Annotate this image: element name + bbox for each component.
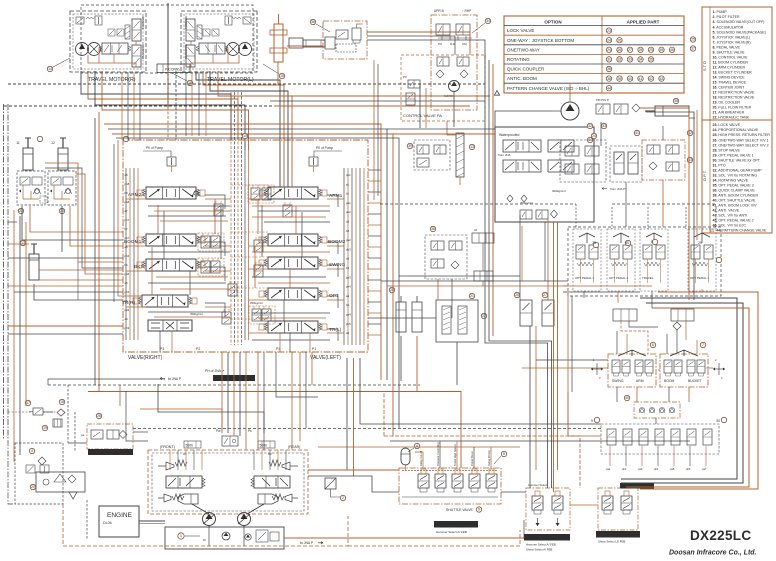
svg-text:36: 36 — [607, 67, 611, 71]
svg-text:pb7: pb7 — [125, 218, 130, 222]
svg-text:VALVE(LEFT): VALVE(LEFT) — [310, 355, 341, 361]
full flow filter box — [36, 472, 85, 492]
svg-text:OPTION: OPTION — [544, 20, 561, 25]
wire spool return y193 — [205, 195, 225, 209]
wire spine to spool y327 — [249, 332, 269, 334]
svg-text:18. RESTRICTION VALVE: 18. RESTRICTION VALVE — [713, 96, 755, 100]
circled 38 — [673, 98, 678, 103]
svg-text:38: 38 — [674, 99, 678, 103]
wire travel R line D — [102, 71, 249, 150]
svg-text:13: 13 — [21, 241, 25, 245]
svg-text:pa7: pa7 — [702, 467, 707, 471]
wire tank down — [456, 342, 458, 385]
wire pedal drop 2 — [617, 291, 619, 303]
svg-text:16: 16 — [188, 81, 192, 85]
svg-text:pa1: pa1 — [346, 201, 351, 205]
svg-text:DX225LC: DX225LC — [690, 528, 751, 543]
svg-text:13. BUCKET CYLINDER: 13. BUCKET CYLINDER — [713, 70, 753, 74]
svg-text:29: 29 — [698, 241, 702, 245]
wire left drop x120 — [119, 385, 121, 406]
svg-text:27. ONE/TWO-WAY SELECT V/V 2: 27. ONE/TWO-WAY SELECT V/V 2 — [713, 143, 769, 147]
boom cylinder 11 (right) — [58, 138, 68, 170]
svg-text:17: 17 — [26, 401, 30, 405]
circled 45 — [625, 240, 631, 245]
wire stop valve east — [133, 431, 148, 433]
control valve spool ARM1 — [259, 187, 327, 199]
svg-text:10. CONTROL VALVE: 10. CONTROL VALVE — [713, 55, 749, 59]
proportional valve cluster — [560, 140, 606, 182]
wire swing to PA C — [367, 36, 455, 55]
wire left loop vertical B — [94, 118, 96, 385]
wire pattern box top links — [495, 111, 552, 127]
wire right margin loop A — [621, 298, 737, 479]
svg-text:pa3: pa3 — [638, 467, 643, 471]
wire travel R line C — [95, 71, 245, 150]
circled 20 — [30, 484, 35, 489]
circled 39 — [407, 143, 412, 148]
wire spool branch y294 — [327, 296, 338, 308]
wire block drop x228 — [227, 352, 229, 433]
wire right margin loop B — [621, 303, 743, 483]
svg-text:5. SOLENOID VALVE(PACKAGE): 5. SOLENOID VALVE(PACKAGE) — [713, 30, 766, 34]
wire travel L line C — [210, 71, 288, 187]
svg-text:FORWARD: FORWARD — [184, 16, 188, 29]
wire block east stub y280 — [368, 279, 381, 281]
wire block L interlink y216 — [148, 215, 226, 217]
circled 16 center joint — [187, 80, 192, 85]
svg-text:ANTIC. BOOM: ANTIC. BOOM — [507, 76, 537, 81]
svg-text:Hammer Select A/ FEB: Hammer Select A/ FEB — [526, 543, 556, 547]
svg-text:pa7: pa7 — [125, 236, 130, 240]
wire joy6 drop A — [616, 387, 618, 402]
svg-text:18: 18 — [60, 400, 64, 404]
wire top bus to right margin A — [270, 95, 490, 97]
svg-text:45: 45 — [625, 241, 629, 245]
wire block vert x152 — [151, 247, 153, 295]
wire pattern box drop B — [557, 222, 559, 470]
wire row west link — [568, 392, 601, 436]
circled 36 — [430, 226, 435, 231]
wire package riser 1 — [439, 441, 441, 468]
wire package riser 2 — [456, 441, 458, 468]
svg-text:42. ANTI. VALVE: 42. ANTI. VALVE — [713, 209, 740, 213]
wire left feeds y258 — [8, 257, 123, 259]
wire spool to spine y301 — [205, 306, 231, 308]
circled 30 — [716, 417, 727, 423]
svg-text:QUICK COUPLER: QUICK COUPLER — [507, 67, 545, 72]
wire loop top C — [112, 134, 393, 436]
wire bottom dashed bus y385 — [48, 384, 420, 386]
svg-text:40. OPT. SHUTTLE VALVE: 40. OPT. SHUTTLE VALVE — [713, 199, 756, 203]
wire relief to select x548 — [547, 218, 549, 300]
bottom shuttle valve row — [601, 424, 719, 454]
connector box L8 upper — [472, 233, 494, 243]
straight travel spool (bottom left) — [148, 320, 192, 331]
aux compensator valve — [222, 309, 231, 324]
one/two-way select valves 26 27 — [520, 300, 554, 326]
wire pedal box under bus B — [563, 285, 652, 287]
svg-text:8. PEDAL VALVE: 8. PEDAL VALVE — [713, 45, 741, 49]
wire swing drop x378 — [377, 64, 379, 196]
svg-text:a8: a8 — [125, 173, 129, 177]
wire lock-valve east-south bundle A — [45, 163, 123, 262]
wire spool return y240 — [205, 242, 225, 256]
SB-B label black box above — [620, 483, 654, 489]
wire select1 to select2 — [570, 504, 598, 506]
wire left boundary elbow — [8, 440, 15, 504]
svg-text:36. QUICK CLAMP VALVE: 36. QUICK CLAMP VALVE — [713, 189, 756, 193]
svg-text:31. PTO: 31. PTO — [713, 163, 726, 167]
circled 32 — [587, 123, 592, 128]
wire left feed y326 — [8, 325, 123, 327]
left aux cluster near control PA — [414, 140, 450, 170]
svg-text:43: 43 — [660, 77, 664, 81]
svg-text:26: 26 — [618, 48, 622, 52]
wire left rail to spool y193 — [126, 198, 146, 200]
svg-text:b8: b8 — [125, 191, 129, 195]
wire pump front drop x202 — [201, 450, 203, 470]
wire bottom dashed extension — [348, 530, 520, 546]
wire joy7 drop B — [688, 387, 690, 402]
aux compensator valve — [254, 237, 263, 252]
wire mid bus y286 — [387, 285, 568, 287]
svg-text:pa5: pa5 — [125, 308, 130, 312]
svg-text:33: 33 — [602, 124, 606, 128]
wire travel L line B — [203, 71, 284, 187]
wire block drop x222 — [221, 352, 223, 433]
svg-text:Swing Priority: Swing Priority — [487, 449, 491, 466]
wire block L interlink y221 — [160, 220, 228, 222]
wire block R interlink y283 — [258, 282, 330, 284]
solenoid package dash-dot box — [399, 468, 501, 504]
wire block R interlink y206 — [252, 205, 330, 207]
wire left feeds y270 — [39, 269, 123, 271]
wire pedal riser 1 — [575, 204, 577, 229]
wire spool to spine y193 — [205, 198, 231, 200]
boundary dash-dot lines left edge — [3, 104, 5, 440]
wire travel R line B — [88, 71, 238, 140]
wire PA pump down — [453, 92, 455, 127]
wire block vert x296 — [295, 206, 297, 234]
wire travel L line A — [196, 71, 280, 187]
svg-text:Shear Select LE FEB: Shear Select LE FEB — [598, 540, 625, 544]
pedal valve cluster TRAVEL — [640, 229, 668, 291]
control valve spool SWING — [259, 257, 327, 269]
circled 29 — [698, 241, 722, 262]
wire block vert x255 — [254, 246, 256, 288]
circled 19 oil cooler — [42, 425, 47, 430]
svg-text:31: 31 — [607, 58, 611, 62]
svg-text:34: 34 — [486, 19, 490, 23]
svg-text:O P T: O P T — [702, 170, 707, 181]
wire block vert x221 — [220, 205, 222, 259]
svg-text:34. ROTATING VALVE: 34. ROTATING VALVE — [713, 178, 749, 182]
svg-text:a1: a1 — [346, 182, 350, 186]
wire lock valve feed B — [8, 243, 29, 245]
svg-text:8: 8 — [651, 240, 653, 244]
wire block vert x258 — [257, 199, 259, 234]
wire pump to housing A — [208, 526, 210, 527]
wire rail stub — [137, 306, 138, 308]
svg-text:pa2: pa2 — [346, 238, 351, 242]
wire pump drop B — [243, 525, 245, 546]
svg-text:27: 27 — [543, 293, 547, 297]
accumulator (4) — [401, 448, 410, 470]
filter diamond right — [673, 322, 681, 330]
pedal valve cluster OPT. PEDAL 2 — [607, 229, 635, 291]
control valve spool BKT — [137, 259, 205, 271]
wire PA east drop C — [492, 64, 494, 336]
svg-text:pb5: pb5 — [125, 290, 130, 294]
svg-text:250kg/cm²: 250kg/cm² — [250, 301, 263, 305]
circled 34 — [485, 18, 490, 23]
wire mid bus y281 — [381, 280, 568, 282]
svg-text:pa3: pa3 — [346, 275, 351, 279]
svg-text:pb5: pb5 — [346, 322, 351, 326]
svg-text:25. HIGH PRESS. RETURN FILTER: 25. HIGH PRESS. RETURN FILTER — [713, 133, 771, 137]
circled 24 — [591, 133, 596, 138]
wire pilot dashed y232 — [231, 231, 268, 233]
wire block R interlink y252 — [252, 251, 330, 253]
wire engine room dashed enclosure — [63, 504, 348, 546]
svg-text:26: 26 — [618, 38, 622, 42]
wire pattern drop x545 — [544, 222, 546, 281]
svg-text:S T D: S T D — [702, 61, 707, 71]
wire gear pump down — [600, 122, 602, 146]
svg-text:22. HYDRAULIC TANK: 22. HYDRAULIC TANK — [713, 116, 750, 120]
circled 26 — [514, 292, 519, 297]
wire qc drop A — [437, 279, 439, 300]
wire joy drop d — [696, 340, 698, 354]
restriction diamond — [57, 409, 65, 416]
svg-text:12: 12 — [51, 141, 55, 145]
center joint feed line — [167, 3, 169, 108]
wire lock valve R down — [61, 206, 63, 252]
circled 12 — [51, 136, 129, 145]
wire dashed riser x168 — [167, 71, 169, 140]
housing inner boxes — [256, 530, 268, 542]
svg-text:6: 6 — [652, 343, 654, 347]
wire pilot dashed y319 — [231, 318, 268, 320]
svg-text:a2: a2 — [346, 220, 350, 224]
svg-text:CONTROL VALVE PA: CONTROL VALVE PA — [403, 113, 442, 118]
wire pedal riser 5 — [715, 207, 717, 229]
aux compensator valve — [201, 258, 210, 273]
svg-text:13: 13 — [470, 145, 474, 149]
aux compensator valve — [228, 281, 237, 296]
svg-text:pa6: pa6 — [125, 272, 130, 276]
wire block drop x240 — [239, 352, 241, 436]
wire pump out B — [308, 476, 399, 492]
svg-text:a3: a3 — [346, 257, 350, 261]
circled 23 right — [59, 208, 64, 213]
wire boom lock to block B — [30, 206, 123, 232]
circled 1 pump — [178, 533, 184, 539]
svg-text:9: 9 — [478, 508, 480, 512]
control valve PA inner dash-dot box — [431, 15, 477, 110]
wire row drop x610 — [609, 446, 611, 466]
wire pump feed dark — [158, 384, 264, 433]
center spine dashed lines — [230, 92, 232, 345]
svg-text:pb6: pb6 — [125, 254, 130, 258]
svg-text:23: 23 — [607, 29, 611, 33]
wire bundle down continue — [77, 262, 79, 300]
solenoid valve: Power Boost — [469, 451, 480, 492]
pilot filter cluster dashed box — [15, 443, 63, 504]
wire dashed riser x176 — [175, 71, 177, 140]
wire left drop x126 — [126, 391, 148, 441]
svg-text:37: 37 — [691, 47, 695, 51]
wire PA east drop B — [489, 60, 552, 488]
svg-text:SWING MOTOR SH: SWING MOTOR SH — [215, 377, 246, 381]
circled 21 air breather — [469, 293, 474, 298]
wire block L interlink y277 — [156, 276, 228, 278]
wire pilot dashed y185 — [231, 184, 268, 186]
wire qc drop B — [451, 279, 453, 318]
svg-text:ONE/TWO-WAY: ONE/TWO-WAY — [507, 47, 540, 52]
wire pedal box under bus A — [563, 291, 640, 293]
svg-text:11. BOOM CYLINDER: 11. BOOM CYLINDER — [713, 60, 749, 64]
svg-text:L8: L8 — [474, 228, 478, 232]
wire bottom dashed bus y428 — [133, 428, 601, 430]
wire bottom orange y447 — [318, 446, 520, 448]
wire rotating down — [625, 182, 627, 227]
svg-text:P1: P1 — [312, 347, 316, 351]
svg-text:SHUTTLE VALVE: SHUTTLE VALVE — [446, 508, 474, 512]
svg-text:ONE-WAY : JOYSTICK BOTTOM: ONE-WAY : JOYSTICK BOTTOM — [507, 38, 574, 43]
wire block to tank — [368, 317, 436, 319]
wire rail stub — [137, 245, 138, 247]
svg-text:15: 15 — [280, 74, 284, 78]
main control valve (10) outer dash-dot box — [123, 140, 368, 352]
wire boom lock to block — [22, 206, 123, 240]
wire gear cluster to right margin A — [640, 108, 689, 300]
svg-text:41. ANTI. BOOM LOCK V/V: 41. ANTI. BOOM LOCK V/V — [713, 204, 758, 208]
wire bottom orange bus y391 — [88, 392, 461, 469]
svg-text:4: 4 — [31, 449, 33, 453]
wire bucket cyl to block A — [39, 279, 123, 281]
circled 37 right of table — [690, 46, 695, 51]
wire block L interlink y206 — [148, 205, 230, 207]
relay valve glyphs — [26, 465, 35, 473]
wire block vert x284 — [283, 300, 285, 321]
control valve spool TR(L) — [259, 321, 327, 333]
circled 22 tank — [481, 313, 486, 318]
wire spool to right rail y294 — [327, 299, 344, 301]
svg-text:to JNA P: to JNA P — [300, 541, 314, 545]
wire package riser 3 — [473, 447, 475, 468]
wire bottom dark bus y441 — [390, 440, 690, 442]
wire package acc link — [415, 452, 423, 468]
control valve PA outer dashed box — [401, 55, 485, 121]
wire block drop x306 — [305, 352, 307, 428]
relief valve PK of pump (right) — [309, 146, 342, 172]
wire block vert x302 — [301, 212, 303, 257]
svg-text:32. ADDITIONAL GEAR PUMP: 32. ADDITIONAL GEAR PUMP — [713, 168, 763, 172]
wire block L interlink y252 — [148, 251, 230, 253]
svg-text:Dr: Dr — [203, 538, 206, 542]
wire block east stub y258 — [368, 257, 381, 259]
quick coupler cluster — [425, 235, 467, 279]
wire center joint down — [277, 62, 279, 84]
spine solid verticals — [244, 150, 246, 340]
wire loop to pattern box A — [387, 128, 495, 130]
center joint (16) hatched bar — [270, 14, 287, 62]
circled 25 right of table — [690, 37, 695, 42]
joystick valve (6) — [608, 350, 656, 387]
wire block R interlink y222 — [264, 221, 330, 223]
svg-text:Hammer Select: Hammer Select — [528, 483, 547, 487]
500h hour-meter boxes — [184, 441, 201, 448]
wire right margin loop D — [640, 292, 758, 489]
pedal valve cluster OPT. PEDAL 3 — [573, 229, 601, 291]
circled 27 — [542, 292, 547, 297]
svg-text:6. JOYSTICK VALVE(L): 6. JOYSTICK VALVE(L) — [713, 35, 751, 39]
wire L8 link — [482, 243, 484, 271]
PA mid valves — [437, 57, 449, 66]
circled 9 shuttle valve — [476, 507, 481, 512]
wire mid bus y276 — [399, 275, 520, 277]
svg-text:VALVE(RIGHT): VALVE(RIGHT) — [128, 355, 163, 361]
circled 28 — [96, 413, 101, 418]
svg-text:30: 30 — [716, 419, 720, 423]
svg-text:a5: a5 — [125, 281, 129, 285]
swing motor valve box (dash-dot) — [323, 21, 367, 59]
svg-text:500h: 500h — [186, 444, 194, 448]
svg-text:16. CENTER JOINT: 16. CENTER JOINT — [713, 86, 746, 90]
aux compensator valve — [254, 262, 263, 277]
svg-text:P3: P3 — [403, 75, 407, 79]
wire block vert x215 — [214, 199, 216, 234]
svg-text:from JNA: from JNA — [498, 153, 511, 157]
svg-text:39: 39 — [618, 77, 622, 81]
svg-text:45: 45 — [660, 48, 664, 52]
wire shuttle to row — [655, 418, 657, 424]
wire spool to right rail y240 — [327, 245, 344, 247]
pedal valve row dashed box — [568, 227, 721, 296]
wire travel R inner drop x122 — [121, 72, 123, 140]
wire spool branch y327 — [327, 329, 338, 341]
svg-text:500h: 500h — [260, 444, 268, 448]
svg-text:pb8: pb8 — [125, 182, 130, 186]
wire pedal drop 3 — [651, 291, 653, 308]
wire pump front drop x170 — [169, 450, 171, 470]
circled 41 — [634, 130, 639, 135]
wire block L interlink y289 — [160, 288, 230, 290]
wire block R interlink y313 — [252, 312, 330, 314]
svg-text:pb4: pb4 — [346, 285, 351, 289]
wire left vertical x26 — [25, 222, 27, 406]
svg-text:28: 28 — [97, 414, 101, 418]
bucket cylinder 13 — [29, 244, 39, 280]
warning triangle left of pattern row — [494, 91, 499, 96]
wire TR(R) bottom drop x160 — [159, 331, 161, 352]
wire pump front drop x194 — [193, 450, 195, 470]
control valve spool BOOM2 — [259, 234, 327, 246]
svg-text:(P/B) JOYSTICK SW ON: (P/B) JOYSTICK SW ON — [598, 533, 635, 537]
relief valve pair cluster — [520, 201, 558, 219]
svg-text:OPT PEDAL 2: OPT PEDAL 2 — [609, 276, 629, 280]
svg-text:to JNA P: to JNA P — [168, 377, 182, 381]
wire row drop x626 — [625, 446, 627, 466]
svg-text:b6: b6 — [125, 263, 129, 267]
wire travel R inner drop x128 — [127, 72, 129, 140]
svg-text:9. SHUTTLE VALVE: 9. SHUTTLE VALVE — [713, 50, 746, 54]
svg-text:30. SHUTTLE VALVE for OPT.: 30. SHUTTLE VALVE for OPT. — [713, 158, 761, 162]
svg-text:10: 10 — [243, 134, 247, 138]
aux compensator valve — [251, 185, 260, 200]
wire block drop x353 — [353, 358, 355, 476]
